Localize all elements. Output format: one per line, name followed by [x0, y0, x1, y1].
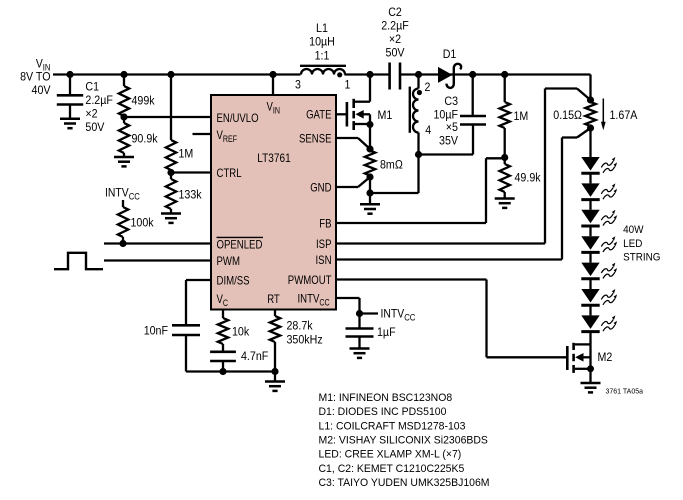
svg-text:1µF: 1µF: [377, 325, 396, 339]
capacitor 10nF: [144, 324, 200, 372]
node M1 source: [367, 121, 374, 128]
resistor 0.15Ω: [553, 102, 595, 126]
ground RT: [265, 382, 285, 391]
parts list: [319, 392, 490, 489]
node INTVCC junction: [356, 310, 363, 317]
transformer L1 secondary phase dot: [417, 90, 422, 95]
resistor 133k: [166, 173, 202, 214]
node EN/UVLO junction: [120, 113, 127, 120]
svg-text:10nF: 10nF: [144, 324, 169, 338]
node sense top: [366, 145, 373, 152]
svg-text:ISN: ISN: [316, 253, 332, 267]
node sense bottom: [366, 173, 373, 180]
svg-text:LED: CREE XLAMP XM-L (×7): LED: CREE XLAMP XM-L (×7): [319, 449, 462, 461]
LED D4: [581, 210, 599, 226]
svg-text:C1, C2: KEMET C1210C225K5: C1, C2: KEMET C1210C225K5: [319, 463, 465, 475]
svg-text:EN/UVLO: EN/UVLO: [217, 111, 259, 125]
LED D4 light arrows: [601, 210, 617, 226]
wire VREF stub: [193, 133, 212, 135]
svg-text:PWMOUT: PWMOUT: [288, 273, 332, 287]
LED D7 light arrows: [601, 289, 617, 305]
svg-text:35V: 35V: [439, 134, 459, 148]
svg-text:PWM: PWM: [217, 254, 241, 268]
resistor 10k: [218, 318, 250, 344]
svg-text:STRING: STRING: [623, 252, 660, 264]
transformer L1 primary phase dot: [337, 72, 342, 77]
svg-text:1.67A: 1.67A: [610, 108, 639, 122]
wire main VIN rail: [53, 73, 591, 75]
ground M2: [581, 383, 601, 392]
svg-text:ISP: ISP: [316, 237, 332, 251]
pin 4 label: [425, 123, 431, 137]
svg-text:50V: 50V: [85, 120, 105, 134]
node M2 source: [587, 365, 594, 372]
svg-text:10µH: 10µH: [309, 35, 335, 49]
svg-text:C1: C1: [85, 79, 99, 93]
capacitor 1µF: [346, 314, 396, 349]
wire CTRL: [171, 171, 211, 173]
node CTRL junction: [167, 169, 174, 176]
LED D8: [581, 315, 599, 331]
svg-text:D1: DIODES INC PDS5100: D1: DIODES INC PDS5100: [319, 406, 447, 418]
LED D5: [581, 236, 599, 252]
junction rail-C1: [66, 71, 73, 78]
resistor 100k: [118, 200, 154, 244]
capacitor C1: [57, 75, 113, 134]
junction rail-C3: [469, 71, 476, 78]
wire rail to ground: [274, 372, 276, 382]
label 40W LED STRING: [623, 224, 660, 264]
current arrow 1.67A: [601, 99, 638, 131]
svg-text:8mΩ: 8mΩ: [380, 158, 403, 172]
svg-text:350kHz: 350kHz: [287, 333, 323, 347]
wire ISN tap to LED string: [589, 128, 591, 157]
svg-text:LED: LED: [623, 238, 642, 250]
svg-text:GATE: GATE: [306, 108, 331, 122]
resistor 1M output divider: [500, 75, 529, 158]
wire FB: [336, 158, 505, 223]
wire LED6-LED7: [589, 279, 591, 289]
svg-text:3761 TA05a: 3761 TA05a: [606, 389, 644, 396]
svg-text:1M: 1M: [514, 109, 529, 123]
wire LED5-LED6: [589, 252, 591, 262]
svg-text:×5: ×5: [446, 120, 458, 134]
ground power stage: [360, 193, 380, 214]
junction rail-T1 secondary: [415, 71, 422, 78]
svg-text:0.15Ω: 0.15Ω: [553, 108, 582, 122]
wire DIM/SS: [186, 280, 211, 326]
wire ISN: [336, 128, 591, 260]
svg-text:2: 2: [425, 80, 431, 94]
svg-text:8V TO: 8V TO: [20, 70, 51, 84]
svg-text:DIM/SS: DIM/SS: [217, 274, 250, 288]
wire PWM: [104, 259, 211, 261]
note 3761 TA05a: [606, 389, 644, 396]
svg-text:LT3761: LT3761: [257, 151, 291, 165]
node comp rail RT: [271, 368, 278, 375]
svg-text:28.7k: 28.7k: [287, 319, 314, 333]
svg-text:1M: 1M: [179, 147, 194, 161]
wire LED2-LED3: [589, 173, 591, 183]
wire C3 return: [419, 153, 474, 155]
wire GATE: [336, 113, 346, 115]
ground 1µF: [350, 349, 370, 358]
svg-text:133k: 133k: [179, 188, 203, 202]
node OPENLED junction: [119, 240, 126, 247]
node ISP tap: [587, 96, 594, 103]
wire compensation rail: [186, 370, 275, 372]
net INTVCC pullup label: [105, 186, 140, 202]
junction rail-VIN pin: [269, 71, 276, 78]
node ISN tap: [587, 124, 594, 131]
svg-text:L1: COILCRAFT MSD1278-103: L1: COILCRAFT MSD1278-103: [319, 420, 466, 432]
capacitor C2: [381, 5, 409, 90]
wire EN/UVLO: [124, 116, 211, 118]
svg-text:M1: M1: [378, 108, 393, 122]
ground 49.9k: [495, 199, 515, 208]
wire M2 source: [589, 369, 591, 383]
wire secondary return: [370, 155, 419, 194]
svg-text:M2: M2: [598, 350, 613, 364]
svg-text:×2: ×2: [389, 32, 401, 46]
svg-text:49.9k: 49.9k: [515, 171, 542, 185]
wire LED7-LED8: [589, 305, 591, 315]
svg-text:1:1: 1:1: [315, 49, 330, 63]
wire LED4-LED5: [589, 226, 591, 236]
wire M1 source to sense resistor: [369, 125, 371, 150]
LED D2 light arrows: [601, 157, 617, 173]
LED D3: [581, 183, 599, 199]
svg-text:C3: C3: [444, 94, 458, 108]
pin 1 label: [345, 78, 351, 92]
wire VIN pin: [272, 75, 274, 96]
node secondary-C3 junction: [415, 151, 422, 158]
ground 133k: [161, 214, 181, 223]
svg-text:40V: 40V: [32, 83, 52, 97]
wire VC pin: [222, 310, 224, 319]
node FB junction: [501, 154, 508, 161]
svg-text:M1: INFINEON BSC123NO8: M1: INFINEON BSC123NO8: [319, 392, 453, 404]
resistor 499k: [119, 75, 155, 118]
svg-text:CTRL: CTRL: [217, 166, 242, 180]
svg-text:GND: GND: [310, 181, 332, 195]
svg-text:L1: L1: [316, 21, 328, 35]
pin 2 label: [425, 80, 431, 94]
wire RT pin: [274, 310, 276, 317]
pin 3 label: [295, 78, 301, 92]
svg-text:D1: D1: [443, 47, 457, 61]
resistor 28.7k: [270, 316, 323, 372]
resistor 90.9k: [119, 117, 158, 157]
wire LED3-LED4: [589, 200, 591, 210]
LED D8 light arrows: [601, 315, 617, 331]
junction rail-1M sense divider: [501, 71, 508, 78]
LED D2: [581, 157, 599, 173]
svg-text:RT: RT: [267, 292, 280, 306]
node ground junction: [366, 189, 373, 196]
junction rail-M1/C2: [366, 71, 373, 78]
transformer L1 secondary winding: [410, 75, 419, 155]
wire SENSE: [336, 138, 370, 149]
svg-text:×2: ×2: [85, 106, 97, 120]
wire LED string to M2 drain: [589, 332, 591, 345]
svg-text:2.2µF: 2.2µF: [381, 19, 409, 33]
svg-text:3: 3: [295, 78, 301, 92]
LED D6 light arrows: [601, 263, 617, 279]
net INTVCC stub: [360, 307, 416, 323]
wire ISP: [336, 89, 591, 244]
ground 90.9k: [114, 157, 134, 166]
pulse waveform PWM input: [54, 253, 103, 269]
svg-text:2.2µF: 2.2µF: [85, 93, 113, 107]
junction rail-1M: [167, 71, 174, 78]
wire PWMOUT to M2 gate: [336, 280, 566, 358]
svg-text:1: 1: [345, 78, 351, 92]
svg-text:C3: TAIYO YUDEN UMK325BJ106M: C3: TAIYO YUDEN UMK325BJ106M: [319, 477, 490, 489]
ground C1: [60, 119, 80, 128]
op-amp U1 LT3761 IC body: [211, 95, 336, 310]
node comp rail VC: [219, 368, 226, 375]
resistor 8mΩ sense: [365, 151, 403, 176]
wire INTVCC pin: [336, 298, 360, 314]
svg-text:499k: 499k: [132, 94, 156, 108]
svg-text:90.9k: 90.9k: [132, 132, 159, 146]
wire rail corner to sense: [589, 75, 591, 101]
wire GND pin: [336, 177, 370, 187]
LED D6: [581, 263, 599, 279]
resistor 1M divider: [166, 75, 194, 173]
svg-text:4: 4: [425, 123, 431, 137]
capacitor 4.7nF: [210, 344, 269, 372]
LED D7: [581, 289, 599, 305]
junction rail-499k: [120, 71, 127, 78]
capacitor C3: [434, 75, 487, 155]
svg-text:M2: VISHAY SILICONIX Si2306BDS: M2: VISHAY SILICONIX Si2306BDS: [319, 435, 488, 447]
LED D5 light arrows: [601, 236, 617, 252]
LED D3 light arrows: [601, 183, 617, 199]
node VIN input label: [20, 56, 51, 97]
svg-text:INTVCC: INTVCC: [381, 307, 416, 323]
transformer L1 primary winding: [300, 21, 346, 75]
wire sense to ground: [369, 177, 371, 193]
svg-text:C2: C2: [388, 5, 402, 19]
svg-text:OPENLED: OPENLED: [217, 238, 263, 252]
wire OPENLED: [104, 242, 211, 244]
svg-text:FB: FB: [319, 217, 331, 231]
svg-text:INTVCC: INTVCC: [105, 186, 140, 202]
svg-text:10k: 10k: [232, 325, 250, 339]
resistor 49.9k: [500, 158, 542, 199]
diode D1 schottky: [438, 47, 461, 88]
svg-text:4.7nF: 4.7nF: [241, 349, 269, 363]
svg-text:SENSE: SENSE: [299, 132, 332, 146]
transistor M2: [567, 343, 612, 373]
svg-text:100k: 100k: [131, 216, 155, 230]
transistor M1: [347, 75, 392, 131]
svg-text:40W: 40W: [623, 224, 644, 236]
svg-text:50V: 50V: [386, 46, 406, 60]
